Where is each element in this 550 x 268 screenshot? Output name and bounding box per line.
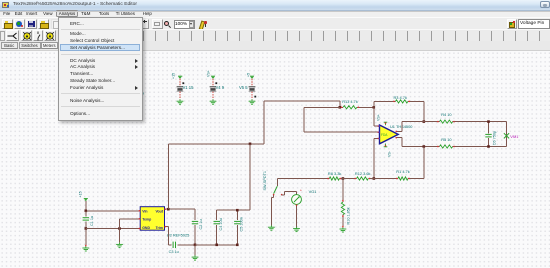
- label VS- opamp: [388, 150, 392, 157]
- wire opamp out top: [396, 122, 402, 132]
- junction C4 bottom: [215, 244, 218, 247]
- junction C1/GND wire: [85, 227, 88, 230]
- node label 5 near menu edge: [163, 121, 166, 126]
- wire Trim stub: [165, 226, 169, 245]
- IC U2 REF5025: [140, 207, 164, 231]
- resistor R3: [374, 95, 424, 103]
- capacitor C2: [192, 209, 203, 245]
- wire R13 left loop: [304, 107, 340, 132]
- wire opamp pinC down: [373, 139, 375, 179]
- svg-text:V5 5: V5 5: [239, 85, 248, 90]
- svg-text:R5 10: R5 10: [441, 137, 452, 142]
- ground below R10: [340, 226, 347, 232]
- wire Vout stub: [165, 209, 196, 210]
- svg-text:VS-: VS-: [388, 150, 392, 157]
- cap top rail: [217, 209, 250, 211]
- svg-text:Trim: Trim: [156, 226, 163, 230]
- menu bar: [0, 11, 550, 18]
- junction R3/R4: [423, 120, 426, 123]
- op-amp U1 THS4500: [374, 122, 398, 147]
- wire top horizontal: [264, 101, 340, 107]
- label U1 THS4500: [390, 124, 413, 129]
- window control button: [540, 1, 550, 8]
- svg-text:R12 3.6k: R12 3.6k: [355, 171, 371, 176]
- svg-text:R3 4.7k: R3 4.7k: [394, 95, 407, 100]
- svg-text:GND: GND: [142, 226, 150, 230]
- node label 5 near menu edge: [176, 121, 179, 126]
- switch SW-SPDT1: [273, 179, 297, 196]
- svg-text:R4 10: R4 10: [441, 112, 452, 117]
- wire switch left to ground: [271, 195, 273, 225]
- svg-text:Temp: Temp: [142, 218, 151, 222]
- svg-text:VG1: VG1: [309, 189, 317, 194]
- pencil icon: [199, 20, 206, 30]
- voltage source V1: [177, 76, 195, 104]
- wire opamp out bottom: [396, 137, 402, 147]
- svg-text:+5: +5: [247, 73, 251, 77]
- junction C6 bottom: [487, 145, 490, 148]
- node label 5 near menu edge: [149, 122, 152, 127]
- wire R3 down: [423, 101, 425, 121]
- wire R8-R12: [341, 178, 355, 180]
- wire GND pin: [86, 228, 140, 229]
- junction pinC rail: [373, 177, 376, 180]
- zoom combo: [174, 20, 196, 29]
- svg-text:Vin: Vin: [142, 209, 147, 213]
- svg-text:R10 1.85k: R10 1.85k: [346, 207, 350, 224]
- voltage source V5: [239, 76, 256, 104]
- svg-text:C6 750p: C6 750p: [492, 131, 496, 145]
- selection tool glyph: [7, 32, 18, 40]
- mid rail: [168, 143, 263, 145]
- svg-text:C5 100n: C5 100n: [240, 217, 244, 231]
- svg-text:Vout: Vout: [155, 209, 163, 213]
- voltmeter VM1: [504, 133, 519, 139]
- analysis dropdown menu: [58, 17, 143, 121]
- svg-text:V1 15: V1 15: [183, 85, 195, 90]
- junction C6 top: [487, 120, 490, 123]
- resistor R8: [328, 171, 342, 180]
- junction R1 top: [423, 145, 426, 148]
- resistor R4: [437, 112, 506, 123]
- meter VG1: [292, 188, 303, 227]
- resistor R10: [341, 179, 344, 228]
- wire C1 to ground: [85, 229, 86, 247]
- label VS+ opamp: [376, 114, 380, 121]
- svg-text:C2 1u: C2 1u: [199, 219, 203, 229]
- wire Vout up: [167, 144, 169, 209]
- rail R5: [402, 146, 438, 148]
- node marker +15 at Vin: [84, 199, 88, 211]
- wire Temp pin: [120, 218, 141, 243]
- wire R13 right: [359, 106, 374, 108]
- svg-text:+: +: [300, 188, 303, 193]
- toolbar row 1: [0, 17, 550, 30]
- svg-text:+15: +15: [79, 191, 83, 197]
- capacitor C3: [168, 242, 195, 254]
- svg-text:SW-SPDT1: SW-SPDT1: [263, 171, 267, 191]
- junction C2 bottom: [194, 244, 197, 247]
- junction R13 right: [373, 106, 376, 109]
- resistor R1: [396, 169, 410, 180]
- capacitor C5: [234, 210, 244, 245]
- node label +15 near Vin: [79, 191, 83, 197]
- component tabs: [0, 41, 550, 51]
- node label VS+ at V4: [207, 70, 211, 77]
- junction R10 top: [342, 177, 345, 180]
- svg-text:R1 4.7k: R1 4.7k: [396, 169, 409, 174]
- junction Vin/C1: [85, 210, 88, 213]
- label U2 REF5025: [167, 233, 190, 238]
- svg-text:C3 1u: C3 1u: [169, 250, 179, 254]
- ground below C1: [82, 246, 89, 251]
- svg-text:C4 10u: C4 10u: [219, 218, 223, 230]
- svg-text:C1 1u: C1 1u: [90, 216, 94, 226]
- junction mid rail: [249, 143, 252, 146]
- svg-text:U2 REF5025: U2 REF5025: [167, 233, 190, 238]
- label R10 1.85k: [346, 207, 350, 224]
- wire to opamp -in: [304, 132, 380, 133]
- svg-text:V4 9: V4 9: [216, 85, 225, 90]
- resistor R13: [341, 99, 359, 109]
- capacitor C4: [214, 210, 224, 245]
- junction C5 top: [236, 209, 239, 212]
- wire Vin: [86, 210, 140, 211]
- node label +15 at V1: [172, 73, 176, 79]
- magnifier icon: [164, 21, 170, 27]
- node label 5 near menu edge: [187, 121, 190, 126]
- wire R12-R1: [370, 178, 397, 180]
- rail R4: [402, 121, 438, 123]
- label VG1: [309, 189, 317, 194]
- window title bar: [0, 0, 550, 11]
- svg-text:+15: +15: [172, 73, 176, 79]
- ground below switch: [268, 225, 275, 230]
- junction R13 left: [339, 106, 342, 109]
- bottom rail: [195, 244, 237, 246]
- junction C5 bottom: [236, 244, 239, 247]
- voltage source V4: [210, 76, 225, 104]
- + button: [141, 19, 149, 29]
- svg-text:R8 3.3k: R8 3.3k: [328, 171, 341, 176]
- svg-text:VM1: VM1: [510, 134, 519, 139]
- wire caps vertical: [249, 144, 251, 210]
- resistor R5: [437, 137, 506, 148]
- svg-text:VS+: VS+: [207, 70, 211, 77]
- svg-text:FDA: FDA: [381, 133, 388, 137]
- resistor R12: [355, 171, 371, 180]
- wire R3 left vertical: [374, 101, 380, 126]
- svg-text:R13 4.7k: R13 4.7k: [342, 99, 358, 104]
- wire R1 right up: [409, 147, 423, 179]
- svg-text:VS+: VS+: [376, 114, 380, 121]
- right rail: [506, 122, 508, 147]
- junction Temp/GND cross: [118, 227, 121, 230]
- node label +5 at V5: [247, 73, 251, 77]
- toolbar row 2: [0, 29, 550, 42]
- capacitor C6: [485, 122, 496, 147]
- wire up right: [263, 101, 265, 144]
- voltage pin combo: [507, 19, 517, 29]
- label SW-SPDT1: [263, 171, 267, 191]
- ground below Temp wire: [116, 243, 123, 248]
- capacitor C1: [83, 211, 94, 229]
- ground stem mid: [192, 245, 199, 260]
- ground below VG1: [293, 227, 300, 232]
- node label 5 near menu edge: [142, 90, 145, 95]
- junction Vout: [167, 208, 170, 211]
- lower rail: [277, 178, 328, 180]
